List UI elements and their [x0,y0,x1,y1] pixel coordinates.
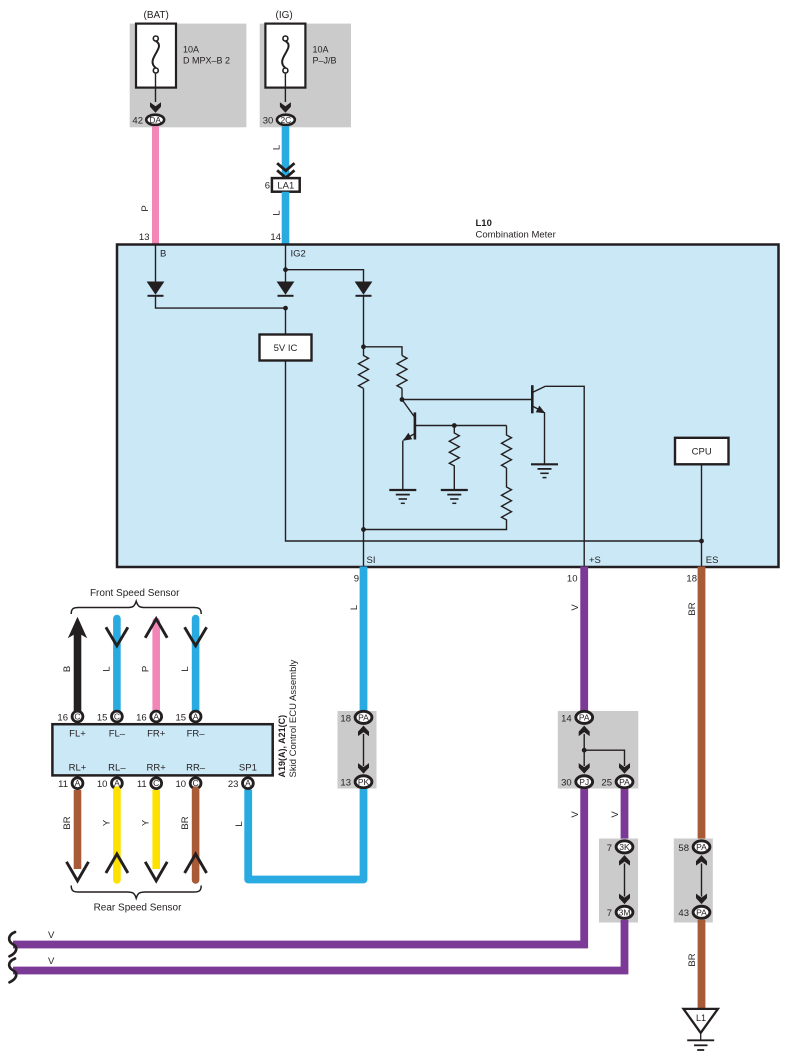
svg-text:IG2: IG2 [291,249,306,260]
wire base of Q1 [415,425,507,427]
svg-text:D MPX–B 2: D MPX–B 2 [183,56,230,66]
svg-text:DA: DA [149,115,161,125]
wire L (blue) front sensor FL- with down chevron [106,619,128,712]
gray pad connectors PA/PA [674,839,713,923]
wire from pin 13 (B) to diode D1 [155,245,157,283]
wire node A to resistor R2 [364,347,403,356]
resistor R4 [502,426,512,468]
svg-text:B: B [160,249,166,260]
svg-text:ES: ES [706,555,719,566]
connector 7 (3K) [616,841,633,853]
cpu box [675,438,729,465]
wire node C to base of transistor Q2 [402,399,531,401]
svg-text:A: A [245,778,251,788]
gray pad connectors PA/PK [338,711,377,789]
svg-text:A19(A), A21(C): A19(A), A21(C) [277,715,287,778]
svg-text:PA: PA [696,907,707,917]
svg-text:15: 15 [97,713,108,724]
connector 10 (C) RR- [190,778,201,789]
connector 11 (A) RL+ [72,778,83,789]
svg-text:L10: L10 [476,218,492,229]
wire P (pink) from fuse 42 to combination meter pin 13 [152,126,159,245]
connector 15 (C) FL- [112,711,123,722]
connector 16 (A) FR+ [151,711,162,722]
resistor R1 [359,347,369,389]
svg-text:Rear Speed Sensor: Rear Speed Sensor [94,903,183,914]
connector 23 (A) SP1 [243,778,254,789]
svg-text:A: A [153,712,159,722]
wire V (purple) from 25 PA to connector 3K [621,789,629,839]
svg-text:RL+: RL+ [69,763,87,774]
svg-text:7: 7 [607,908,612,919]
svg-text:2C: 2C [280,115,291,125]
ground G1 [389,490,416,503]
svg-text:P: P [140,205,151,211]
transistor Q2 [532,385,545,413]
connector 25 (PA) [616,776,633,788]
wire from pin 14 (IG2) to diode D2 [285,245,287,283]
diode D1 [147,282,165,296]
resistor R2 [397,356,407,389]
svg-text:25: 25 [601,778,612,789]
svg-text:P: P [141,666,152,672]
svg-text:30: 30 [263,116,274,127]
svg-text:PJ: PJ [579,777,589,787]
wire P (pink) front sensor FR+ with up chevron [145,619,167,711]
transistor Q1 [402,400,415,441]
arrow from fuse F1 into connector [150,74,161,113]
svg-text:C: C [74,712,80,722]
svg-text:P–J/B: P–J/B [313,56,337,66]
wire emitter Q1 to ground [402,441,404,491]
connector 43 (PA) [693,906,710,918]
svg-text:SP1: SP1 [239,763,257,774]
svg-text:10A: 10A [183,45,199,55]
svg-text:Y: Y [101,819,112,826]
svg-text:V: V [610,811,621,818]
svg-text:L: L [272,210,283,215]
svg-text:V: V [570,811,581,818]
svg-text:RR+: RR+ [147,763,167,774]
connector 30 (2C) [277,115,295,125]
svg-text:L: L [349,605,360,610]
svg-text:11: 11 [137,779,147,790]
ground L1 [684,1009,718,1050]
svg-text:15: 15 [176,713,187,724]
svg-text:11: 11 [58,779,68,790]
chevron arrows into junction LA1 [277,163,294,178]
svg-text:V: V [48,956,55,967]
wire L (blue) from fuse 30 to junction LA1 [282,126,290,178]
arrow from PA to junction and split to PJ and PA [579,726,630,774]
wire L (blue) from LA1 to combination meter pin 14 [282,192,290,245]
arrow from fuse F2 into connector [280,74,291,113]
wire L (blue) from SI to connector 18 PA [360,567,368,712]
svg-text:Front Speed Sensor: Front Speed Sensor [90,588,180,599]
resistor R5 [364,468,512,530]
svg-text:PA: PA [579,712,590,722]
svg-text:L: L [272,145,283,150]
wire L (blue) from PK down and left to SP1 [248,789,363,880]
svg-text:PA: PA [358,712,369,722]
skid control ECU box A19(A) A21(C) [52,724,272,775]
svg-text:30: 30 [561,778,572,789]
svg-text:23: 23 [228,779,239,790]
diode D2 [277,282,295,296]
svg-text:FR–: FR– [187,729,206,740]
connector 10 (A) RL- [112,778,123,789]
regulator 5V IC box [260,335,312,361]
svg-text:10: 10 [176,779,187,790]
junction node B [361,527,366,532]
wire V (purple) from 3M down and left to splice [13,920,625,971]
svg-text:16: 16 [136,713,147,724]
connector 58 (PA) [693,841,710,853]
ground G3 [531,464,558,477]
svg-text:3K: 3K [619,842,630,852]
wire SI column from R1 to node B [363,388,365,529]
arrow pair between 58 PA and 43 PA [696,855,707,904]
svg-text:13: 13 [340,778,351,789]
gray pad connectors PA/PJ/PA [558,711,639,789]
svg-text:Combination Meter: Combination Meter [476,230,556,241]
svg-text:43: 43 [678,908,689,919]
wire V (purple) from +S to connector 14 PA [580,567,588,712]
junction connector 6 LA1 [272,178,300,192]
svg-text:10: 10 [567,574,578,585]
svg-text:PK: PK [358,777,370,787]
connector 7 (3M) [616,906,633,918]
svg-text:14: 14 [561,713,572,724]
arrow pair between 3K and 3M [619,855,630,904]
wire SI column from node B to box edge [363,530,365,567]
svg-text:LA1: LA1 [277,181,294,192]
svg-text:13: 13 [139,232,150,243]
svg-text:A: A [193,712,199,722]
svg-text:3M: 3M [619,907,631,917]
svg-text:FR+: FR+ [147,729,166,740]
svg-text:L: L [180,666,191,671]
svg-text:7: 7 [607,843,612,854]
resistor R3 [449,426,459,491]
svg-text:BR: BR [687,602,698,615]
fuse F2 value label 10A P-J/B [313,45,337,66]
svg-text:FL+: FL+ [69,729,86,740]
junction ES [699,539,704,544]
svg-text:16: 16 [57,713,68,724]
junction node A [361,344,366,349]
connector 42 (DA) [146,115,164,125]
combination meter box L10 [117,245,779,568]
fuse panel (BAT) gray background [130,24,247,128]
wire collector Q2 to +S column [545,386,584,566]
svg-text:A: A [75,778,81,788]
fuse panel (IG) gray background [260,24,351,128]
wire from D1 to IG2 node [156,296,286,308]
brace over front sensor wires [71,601,201,614]
svg-text:10: 10 [97,779,108,790]
connector 18 (PA) [355,711,372,723]
wire from D2 junction into 5V IC [285,308,287,334]
wire BR (brown) rear sensor RR- with up chevron [185,790,207,880]
connector 14 (PA) [576,711,593,723]
diode D3 [355,282,373,296]
svg-text:14: 14 [270,232,281,243]
svg-text:RR–: RR– [186,763,206,774]
svg-text:C: C [114,712,120,722]
svg-text:L: L [101,666,112,671]
wire B (black) front sensor FL+ with up arrow [68,617,87,711]
svg-text:SI: SI [367,555,376,566]
svg-text:5V IC: 5V IC [274,343,298,354]
wire Y (yellow) rear sensor RR+ with down chevron [145,790,167,881]
svg-text:+S: +S [589,555,601,566]
svg-text:(BAT): (BAT) [144,10,169,21]
svg-text:V: V [48,930,55,941]
junction on IG2 line [283,267,288,272]
junction node D [452,423,457,428]
svg-text:18: 18 [340,713,351,724]
wire BR (brown) rear sensor RL+ with down chevron [67,790,89,881]
wire V (purple) from PJ down and left to splice [13,789,584,945]
brace under rear sensor wires [71,886,201,899]
wire break symbol on first wire [9,932,16,956]
svg-text:B: B [62,666,73,672]
svg-text:42: 42 [132,116,143,127]
connector 16 (C) FL+ [72,711,83,722]
wire BR (brown) from 43 PA to ground L1 [698,920,706,1010]
wire BR (brown) from ES to connector 58 PA [698,567,706,840]
svg-text:PA: PA [696,842,707,852]
fuse F1 value label 10A D MPX-B 2 [183,45,230,66]
svg-text:Skid Control ECU Assembly: Skid Control ECU Assembly [288,660,299,778]
svg-text:RL–: RL– [108,763,126,774]
wire from D3 to node A [363,296,365,347]
wire Y (yellow) rear sensor RL- with up chevron [106,790,128,880]
svg-text:9: 9 [354,574,359,585]
fuse F1 body [136,24,176,88]
svg-text:6: 6 [265,181,270,192]
gray pad connectors 3K/3M [599,839,638,923]
svg-text:C: C [153,778,159,788]
svg-text:18: 18 [686,574,697,585]
wire CPU to ES box edge [701,464,703,566]
connector 13 (PK) [355,776,372,788]
svg-text:CPU: CPU [692,447,712,458]
svg-text:BR: BR [687,953,698,966]
svg-text:BR: BR [180,816,191,829]
svg-text:V: V [570,604,581,611]
wire L (blue) front sensor FR- with down chevron [185,619,207,712]
fuse F2 body [265,24,305,88]
svg-text:L1: L1 [696,1013,706,1023]
arrow pair between PA and PK [358,726,369,774]
connector 11 (C) RR+ [151,778,162,789]
svg-text:Y: Y [141,819,152,826]
wire R2 to node C [401,388,403,399]
wire from 5V IC to ES junction [286,361,702,542]
wire break symbol on second wire [9,959,16,983]
wire IG2 branch to diode D3 [286,270,364,282]
svg-text:PA: PA [619,777,630,787]
svg-text:(IG): (IG) [276,10,293,21]
svg-text:L: L [234,821,245,826]
junction node C [400,397,405,402]
svg-text:BR: BR [62,816,73,829]
connector 15 (A) FR- [190,711,201,722]
wire emitter Q2 to ground [544,412,546,464]
svg-text:58: 58 [678,843,689,854]
svg-text:FL–: FL– [109,729,126,740]
ground G2 [441,490,468,503]
connector 30 (PJ) [576,776,593,788]
junction below D1/D2 [283,306,288,311]
svg-text:10A: 10A [313,45,329,55]
